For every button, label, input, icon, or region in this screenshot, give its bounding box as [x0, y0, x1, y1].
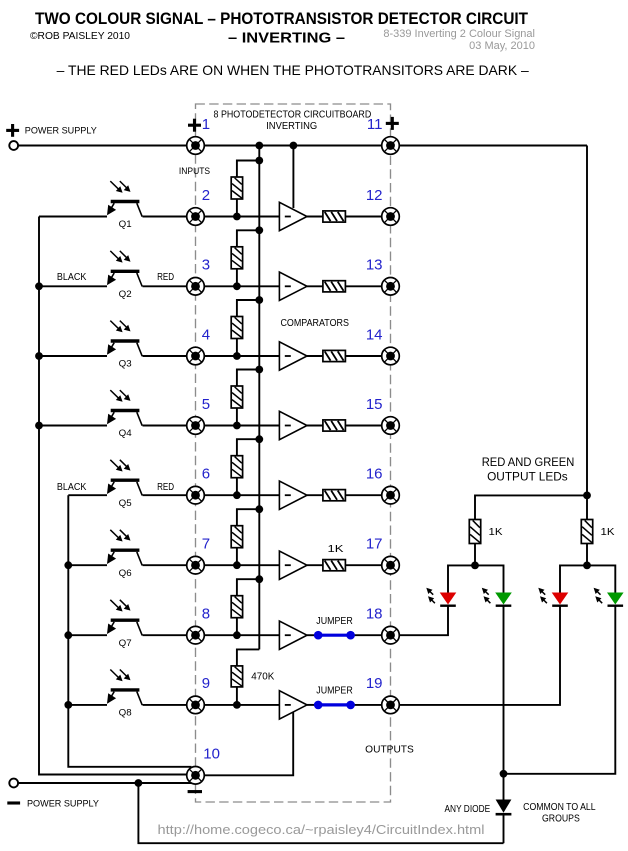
junction input row 8: [233, 631, 241, 639]
wire resistor to input 4: [236, 339, 238, 357]
svg-text:RED AND GREEN: RED AND GREEN: [482, 457, 575, 469]
svg-text:17: 17: [366, 536, 383, 553]
wire pullup stub row 3: [237, 230, 259, 247]
junction bus stub row 5: [255, 366, 263, 374]
svg-text:ANY DIODE: ANY DIODE: [445, 804, 491, 815]
terminal 9: [187, 696, 205, 714]
svg-text:RED: RED: [157, 482, 174, 493]
phototransistor Q6: [111, 549, 140, 552]
junction common cathode: [500, 770, 508, 778]
resistor 470K pull-up input 8: [231, 596, 242, 618]
junction bus A row 5: [35, 422, 43, 430]
wire comparator 2 output: [307, 285, 382, 287]
resistor 1K output row 13: [323, 281, 346, 292]
resistor 1K output row 14: [323, 350, 346, 361]
svg-text:Q1: Q1: [119, 219, 132, 230]
terminal 2: [187, 208, 205, 226]
wire pullup stub row 5: [237, 370, 259, 387]
junction rail split: [583, 492, 591, 500]
power supply terminal bottom: [9, 779, 18, 788]
svg-text:JUMPER: JUMPER: [316, 686, 353, 697]
plus symbol terminal 11: [386, 122, 399, 125]
phototransistor Q3: [111, 339, 140, 342]
svg-text:8 PHOTODETECTOR CIRCUITBOARD: 8 PHOTODETECTOR CIRCUITBOARD: [214, 110, 372, 121]
wire supply return to diode: [138, 783, 503, 843]
wire collector Q4 to terminal 5: [143, 425, 187, 427]
junction bus B row 9: [64, 701, 72, 709]
wire input terminal 4 to comparator 3: [204, 355, 279, 357]
terminal 16: [382, 486, 400, 504]
terminal 1: [187, 137, 205, 155]
terminal 17: [382, 556, 400, 574]
svg-text:1: 1: [202, 116, 210, 133]
resistor 470K pull-up input 3: [231, 247, 242, 269]
svg-text:RED: RED: [157, 272, 174, 283]
wire input terminal 3 to comparator 2: [204, 285, 279, 287]
wire bus jog to 470K: [237, 649, 259, 666]
junction input row 3: [233, 282, 241, 290]
junction bus A row 3: [35, 282, 43, 290]
wire green LED 1 to common: [503, 606, 505, 774]
phototransistor Q7: [111, 619, 140, 622]
wire emitter bus B vertical: [68, 495, 190, 772]
resistor 470K pull-up input 7: [231, 526, 242, 548]
comparator U3: [279, 342, 307, 370]
junction input row 4: [233, 352, 241, 360]
svg-text:9: 9: [202, 675, 210, 692]
terminal 18: [382, 626, 400, 644]
wire common to diode: [503, 774, 505, 800]
svg-text:Q2: Q2: [119, 289, 132, 300]
terminal 15: [382, 417, 400, 435]
wire input terminal 8 to comparator 7: [204, 634, 279, 636]
svg-text:19: 19: [366, 675, 383, 692]
resistor 1K LED group 2: [581, 520, 592, 544]
svg-text:Q3: Q3: [119, 359, 132, 370]
svg-text:470K: 470K: [251, 671, 274, 682]
terminal 14: [382, 347, 400, 365]
junction input row 5: [233, 422, 241, 430]
junction input row 6: [233, 491, 241, 499]
wire resistor to input 7: [236, 548, 238, 566]
comparator U1: [279, 202, 307, 230]
terminal 12: [382, 208, 400, 226]
wire comparator 5 output: [307, 494, 382, 496]
wire resistor to input 6: [236, 478, 238, 496]
wire emitter bus A vertical: [39, 217, 188, 775]
wire collector Q1 to terminal 2: [143, 216, 187, 218]
wire comparator 1 output: [307, 216, 382, 218]
svg-text:6: 6: [202, 466, 210, 483]
svg-text:BLACK: BLACK: [57, 272, 87, 283]
wire collector Q8 to terminal 9: [143, 704, 187, 706]
junction bus stub row 7: [255, 505, 263, 513]
wire comparator 1 plus feed: [292, 146, 294, 209]
wire jumper to terminal 18: [351, 634, 382, 636]
resistor 470K pull-up input 4: [231, 317, 242, 339]
svg-text:Q6: Q6: [119, 568, 132, 579]
comparator U7: [279, 621, 307, 649]
terminal 6: [187, 486, 205, 504]
wire emitter Q5: [68, 494, 107, 496]
resistor 470K pull-up input 9: [231, 666, 242, 687]
svg-text:4: 4: [202, 326, 210, 343]
phototransistor Q4: [111, 409, 140, 412]
wire red LED 2 to terminal 19: [399, 606, 560, 705]
svg-text:8: 8: [202, 606, 210, 623]
svg-text:1K: 1K: [489, 527, 503, 538]
svg-text:Q8: Q8: [119, 708, 132, 719]
svg-text:16: 16: [366, 466, 383, 483]
terminal 4: [187, 347, 205, 365]
svg-text:INPUTS: INPUTS: [179, 166, 210, 176]
wire collector Q7 to terminal 8: [143, 634, 187, 636]
comparator U6: [279, 551, 307, 579]
wire red LED 1 to terminal 18: [399, 606, 448, 636]
LED green D4: [607, 593, 624, 605]
svg-text:2: 2: [202, 187, 210, 204]
terminal 5: [187, 417, 205, 435]
junction LED split group 1: [471, 562, 479, 570]
svg-text:http://home.cogeco.ca/~rpaisle: http://home.cogeco.ca/~rpaisley4/Circuit…: [158, 822, 485, 837]
wire split to green LED 2: [587, 565, 615, 592]
wire rail to left 1K: [475, 495, 587, 519]
junction supply return: [135, 779, 143, 787]
wire input terminal 2 to comparator 1: [204, 216, 279, 218]
svg-text:JUMPER: JUMPER: [316, 616, 353, 627]
svg-text:03 May, 2010: 03 May, 2010: [469, 40, 535, 52]
wire V+ rail right drop: [586, 146, 588, 496]
terminal 7: [187, 556, 205, 574]
LED red D1: [440, 593, 457, 605]
svg-text:11: 11: [367, 116, 383, 133]
junction bus B row 8: [64, 631, 72, 639]
svg-text:18: 18: [366, 606, 383, 623]
phototransistor Q1: [111, 200, 140, 203]
wire split to green LED 1: [475, 565, 504, 592]
wire green LED 2 to common: [504, 606, 616, 774]
junction bus stub row 6: [255, 435, 263, 443]
comparator U5: [279, 481, 307, 509]
diode ANY DIODE: [496, 800, 512, 813]
svg-text:12: 12: [366, 187, 383, 204]
svg-text:– INVERTING –: – INVERTING –: [228, 31, 345, 47]
wire pullup stub row 8: [237, 579, 259, 596]
wire emitter Q2: [39, 285, 107, 287]
wire resistor to input 2: [236, 199, 238, 217]
resistor 1K output row 17: [323, 560, 346, 571]
svg-text:BLACK: BLACK: [57, 482, 87, 493]
wire comparator 3 output: [307, 355, 382, 357]
comparator U8: [279, 691, 307, 719]
wire input terminal 6 to comparator 5: [204, 494, 279, 496]
wire pullup stub row 7: [237, 509, 259, 526]
junction comparator feed at rail: [290, 142, 298, 150]
junction input row 2: [233, 213, 241, 221]
wire jumper to terminal 19: [351, 704, 382, 706]
wire 1K to split group 1: [474, 544, 476, 566]
wire comparator 7 output: [307, 634, 318, 636]
LED green D2: [495, 593, 512, 605]
svg-text:8-339 Inverting 2 Colour Signa: 8-339 Inverting 2 Colour Signal: [383, 28, 535, 40]
junction bus stub row 2: [255, 157, 263, 165]
junction bus stub row 3: [255, 226, 263, 234]
svg-text:COMMON TO ALL: COMMON TO ALL: [523, 802, 596, 813]
circuitboard dashed outline: [196, 104, 391, 802]
wire 1K to split group 2: [586, 544, 588, 566]
wire collector Q5 to terminal 6: [143, 494, 187, 496]
svg-text:14: 14: [366, 326, 383, 343]
junction bus B row 7: [64, 561, 72, 569]
phototransistor Q2: [111, 270, 140, 273]
svg-text:POWER SUPPLY: POWER SUPPLY: [27, 799, 99, 809]
svg-text:7: 7: [202, 536, 210, 553]
jumper row 19: [318, 703, 350, 706]
svg-text:Q7: Q7: [119, 638, 132, 649]
svg-text:3: 3: [202, 257, 210, 274]
svg-text:15: 15: [366, 396, 383, 413]
phototransistor Q8: [111, 688, 140, 691]
svg-text:COMPARATORS: COMPARATORS: [280, 318, 349, 329]
minus symbol power supply left: [7, 801, 20, 804]
resistor 1K LED group 1: [469, 520, 480, 544]
svg-text:1K: 1K: [328, 544, 344, 555]
junction bus A row 4: [35, 352, 43, 360]
wire resistor to input 8: [236, 618, 238, 636]
power supply terminal top: [9, 141, 18, 150]
wire pullup stub row 2: [237, 161, 259, 178]
comparator U2: [279, 272, 307, 300]
svg-text:– THE RED LEDs ARE ON WHEN THE: – THE RED LEDs ARE ON WHEN THE PHOTOTRAN…: [57, 63, 529, 78]
resistor 1K output row 15: [323, 420, 346, 431]
wire resistor to input 5: [236, 408, 238, 426]
junction input row 9: [233, 701, 241, 709]
svg-text:INVERTING: INVERTING: [266, 121, 317, 132]
svg-text:TWO COLOUR SIGNAL – PHOTOTRANS: TWO COLOUR SIGNAL – PHOTOTRANSISTOR DETE…: [35, 9, 529, 28]
wire input terminal 9 to comparator 8: [204, 704, 279, 706]
svg-text:13: 13: [366, 257, 383, 274]
comparator U4: [279, 411, 307, 439]
svg-text:5: 5: [202, 396, 210, 413]
wire emitter Q7: [68, 634, 107, 636]
wire pullup stub row 6: [237, 439, 259, 456]
wire comparator 8 output: [307, 704, 318, 706]
svg-text:OUTPUT LEDs: OUTPUT LEDs: [487, 472, 568, 484]
wire diode to supply return: [503, 814, 505, 843]
wire input terminal 5 to comparator 4: [204, 425, 279, 427]
resistor 470K pull-up input 6: [231, 456, 242, 478]
terminal 3: [187, 278, 205, 296]
wire resistor to input 3: [236, 269, 238, 287]
wire collector Q2 to terminal 3: [143, 285, 187, 287]
phototransistor Q5: [111, 479, 140, 482]
svg-text:©ROB PAISLEY 2010: ©ROB PAISLEY 2010: [30, 31, 130, 42]
junction input row 7: [233, 561, 241, 569]
junction bus stub row 8: [255, 575, 263, 583]
svg-text:10: 10: [203, 746, 220, 763]
jumper row 18: [318, 634, 350, 637]
wire emitter Q8: [68, 704, 107, 706]
wire rail to right 1K: [586, 495, 588, 519]
svg-text:OUTPUTS: OUTPUTS: [365, 745, 414, 756]
wire split to red LED 2: [560, 565, 587, 592]
plus symbol terminal 1: [188, 124, 201, 127]
terminal 8: [187, 626, 205, 644]
svg-text:GROUPS: GROUPS: [542, 813, 580, 824]
wire 470K to input 9: [236, 687, 238, 705]
wire V+ rail: [18, 145, 587, 147]
wire input terminal 7 to comparator 6: [204, 564, 279, 566]
terminal 10: [187, 767, 205, 785]
junction bus stub row 4: [255, 296, 263, 304]
wire comparator 8 bottom to terminal 10: [204, 712, 293, 775]
terminal 11: [382, 137, 400, 155]
svg-text:Q4: Q4: [119, 428, 132, 439]
wire comparator 4 output: [307, 425, 382, 427]
LED red D3: [552, 593, 569, 605]
resistor 470K pull-up input 5: [231, 386, 242, 408]
terminal 13: [382, 278, 400, 296]
wire emitter Q6: [68, 564, 107, 566]
resistor 1K output row 12: [323, 211, 346, 222]
wire V+ bus vertical: [258, 146, 260, 650]
svg-text:Q5: Q5: [119, 498, 132, 509]
wire emitter Q1: [39, 216, 107, 218]
terminal 19: [382, 696, 400, 714]
junction V+ bus at rail: [255, 142, 263, 150]
wire pullup stub row 4: [237, 300, 259, 317]
svg-text:POWER SUPPLY: POWER SUPPLY: [25, 126, 97, 136]
junction LED split group 2: [583, 562, 591, 570]
resistor 470K pull-up input 2: [231, 177, 242, 199]
wire collector Q3 to terminal 4: [143, 355, 187, 357]
wire comparator 6 output: [307, 564, 382, 566]
resistor 1K output row 16: [323, 490, 346, 501]
plus symbol power supply left: [6, 129, 19, 132]
svg-text:1K: 1K: [601, 527, 615, 538]
wire emitter Q3: [39, 355, 107, 357]
wire collector Q6 to terminal 7: [143, 564, 187, 566]
wire emitter Q4: [39, 425, 107, 427]
minus symbol terminal 10: [188, 790, 202, 793]
wire supply return: [18, 782, 192, 784]
wire split to red LED 1: [448, 565, 475, 592]
